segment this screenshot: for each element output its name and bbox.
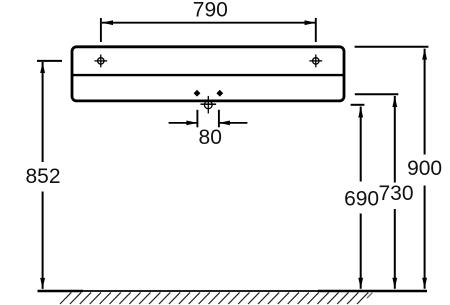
faucet mark diamond left	[194, 90, 201, 97]
dimension 852	[25, 61, 62, 289]
left mounting hole	[94, 55, 107, 68]
faucet mark diamond right	[216, 90, 223, 97]
dimension 80	[169, 110, 248, 149]
svg-text:80: 80	[199, 126, 222, 149]
basin divider line	[72, 74, 344, 76]
dim 852 bottom extension overlay	[38, 290, 84, 293]
dimension 900	[355, 47, 443, 289]
right mounting hole	[309, 55, 322, 68]
svg-text:852: 852	[25, 165, 60, 188]
right dims bottom extension overlay	[318, 290, 427, 293]
basin outline	[72, 47, 344, 101]
svg-text:730: 730	[378, 182, 413, 205]
dimension 790	[101, 0, 316, 42]
floor hatching	[60, 292, 372, 304]
dimension 690	[344, 105, 379, 289]
svg-text:690: 690	[344, 188, 379, 211]
svg-text:790: 790	[193, 0, 228, 22]
floor line	[38, 290, 428, 292]
svg-text:900: 900	[407, 157, 442, 180]
drain hole	[201, 96, 217, 114]
dimension 730	[355, 94, 414, 288]
